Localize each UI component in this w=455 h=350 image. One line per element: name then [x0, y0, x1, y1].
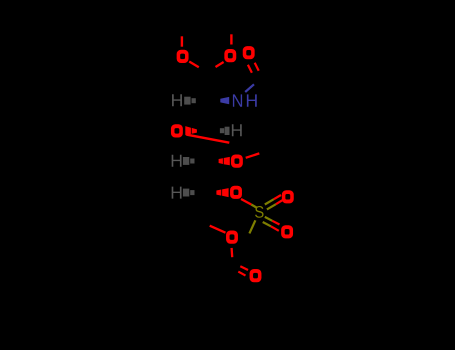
S=O lower line1 (olive half) [265, 217, 273, 221]
wedge C3-O dash2 (red half) [192, 128, 197, 134]
hash C4-H dash1 [183, 157, 189, 165]
amide C=O double bond line a (red half) [248, 65, 252, 73]
sulfonyl O upper [282, 190, 294, 203]
hash C3-H dash2 [225, 127, 230, 135]
amide carbonyl O [243, 46, 255, 59]
S=O upper line2 (olive half) [267, 204, 276, 209]
acetate carbonyl O [250, 269, 262, 282]
S=O lower line1 (red half) [272, 221, 279, 225]
S=O upper line2 (red half) [276, 200, 283, 204]
wedge C5-O dash2 (red half) [222, 188, 229, 197]
bond O1-methyl (red half) [181, 36, 183, 46]
S=O lower line2 (olive half) [263, 222, 271, 226]
H on C2 [172, 94, 182, 106]
wedge C4-O dash1 (red half) [219, 158, 223, 164]
hash C4-H dash2 [190, 159, 194, 164]
acetal O2 [224, 49, 236, 62]
wedge C2-N (blue half) [220, 97, 229, 104]
sulfonyl O lower [281, 225, 293, 238]
bond O1-C1 (red half) [189, 62, 199, 68]
bond N-C carbonyl (blue half) [245, 84, 254, 92]
amide H label [247, 94, 257, 106]
H on C4 [172, 155, 182, 167]
O on C4 [231, 155, 243, 168]
H on C5 [172, 187, 182, 199]
bond C6-O ester (red half) [210, 226, 226, 233]
hash C2-H dash2 [192, 98, 196, 103]
S=O upper line1 (red half) [274, 195, 281, 199]
bond O5-S (red half) [241, 199, 251, 205]
amide C=O double bond line b (red half) [255, 63, 259, 71]
bond O4-methyl (red half) [246, 153, 260, 157]
H on C3 [232, 124, 242, 136]
acetal O1 [177, 50, 189, 63]
bond O2-methyl (red half) [230, 34, 232, 44]
hash C5-H dash2 [190, 190, 194, 195]
wedge C4-O dash2 (red half) [224, 157, 230, 165]
hash C5-H dash1 [183, 189, 189, 197]
bond O2-C1 (red half) [216, 62, 224, 67]
wedge C5-O dash1 (red half) [216, 190, 221, 196]
bond O5-S (olive half) [251, 205, 257, 209]
S=O lower line2 (red half) [271, 226, 279, 231]
hash C2-H dash1 [184, 97, 190, 105]
O on C5 [230, 186, 242, 199]
O on C3 [171, 124, 183, 137]
hash C3-H dash1 [220, 128, 224, 133]
bond S-methyl (olive half) [249, 220, 255, 233]
ester O [226, 231, 238, 244]
bond O3-C (red) [186, 135, 229, 143]
bond Oe-C carbonyl (red half) [230, 248, 233, 257]
wedge C3-O dash1 (red half) [185, 126, 191, 135]
mesyl S [255, 206, 264, 218]
acetate C=O line a (red half) [240, 266, 248, 270]
S=O upper line1 (olive half) [265, 199, 274, 204]
acetate C=O line b (red half) [238, 272, 245, 276]
amide N label [233, 94, 242, 106]
